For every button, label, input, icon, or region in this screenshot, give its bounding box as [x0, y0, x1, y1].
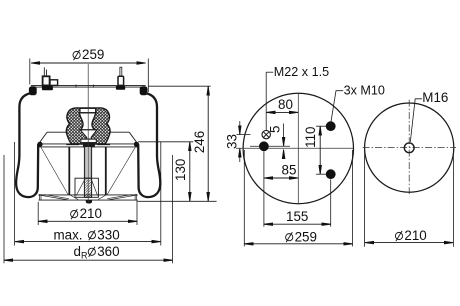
- svg-text:max.: max.: [54, 227, 83, 242]
- dim Ø259 top: dimension line: [31, 62, 146, 64]
- horizontal center line (dash-dot): [363, 147, 456, 149]
- dim Ø259 top: left extension line: [29, 59, 31, 85]
- leader M22: [265, 72, 267, 130]
- dim 130: dimension line: [189, 142, 191, 202]
- piston wall right: [105, 147, 107, 195]
- piston bottom band: [39, 194, 138, 196]
- rubber bumper (hatched): [66, 108, 110, 144]
- piston lid: [47, 131, 129, 133]
- svg-text:246: 246: [192, 131, 207, 153]
- svg-text:155: 155: [286, 209, 308, 224]
- dim Ø259 (middle): extensions: [243, 150, 245, 246]
- piston circle Ø210: [365, 103, 454, 192]
- center line left view: [87, 64, 89, 203]
- vertical center line (dash-dot): [408, 100, 410, 197]
- dim Ø210 (right): extensions: [364, 150, 366, 247]
- svg-text:259: 259: [295, 229, 317, 244]
- dim 110 line: [319, 126, 321, 174]
- dim max Ø330: extension lines: [14, 142, 16, 246]
- vertical center line: [297, 94, 299, 204]
- bottom nub: [86, 200, 92, 203]
- dim 5 (small, outside arrows): [283, 124, 285, 147]
- svg-text:210: 210: [80, 206, 102, 221]
- svg-text:33: 33: [224, 134, 239, 149]
- svg-text:M22 x 1.5: M22 x 1.5: [274, 65, 329, 79]
- bolt housing box with hatch: [75, 178, 98, 197]
- extension line through left M10 down to 155: [263, 152, 265, 227]
- bumper seat dashes: [66, 143, 79, 145]
- dim 33: dimension line with outside arrows: [239, 121, 241, 135]
- center bolt rod: [85, 147, 91, 178]
- dim max Ø330: dimension line: [15, 241, 161, 243]
- svg-text:360: 360: [97, 244, 119, 259]
- M16 center hole: [404, 143, 414, 153]
- dim Ø259 (middle): line: [244, 243, 352, 245]
- piston wall left: [68, 147, 70, 195]
- svg-text:259: 259: [82, 47, 104, 62]
- right bead clamp: [140, 86, 148, 95]
- bottom wedge hatch right: [108, 195, 138, 200]
- dim Ø210 bottom: label: [71, 209, 78, 219]
- washer under funnel: [81, 139, 96, 142]
- bolt head under bumper: [83, 143, 95, 148]
- dim Ø259 top: label: [73, 50, 80, 60]
- lobe curl over rim corner right: [134, 142, 139, 147]
- leader 3x M10: [331, 91, 343, 123]
- dim 85: [264, 177, 298, 179]
- svg-text:5: 5: [267, 125, 282, 132]
- piston strut right: [107, 147, 135, 194]
- stud right (M10): [120, 67, 122, 76]
- svg-text:80: 80: [278, 97, 293, 112]
- piston rim band: [38, 143, 139, 145]
- M10 level tick line: [250, 145, 290, 147]
- dim dR Ø360: dimension line: [4, 259, 173, 261]
- dim 246: dimension line with arrows: [207, 86, 209, 201]
- dim 155: right extension: [330, 179, 332, 226]
- svg-text:130: 130: [173, 159, 188, 181]
- dim Ø210 bottom: extension lines: [37, 202, 39, 225]
- dim 155 line: [264, 223, 331, 225]
- dim 130: extension tick: [138, 141, 193, 143]
- dim 80: [266, 111, 298, 113]
- left bead clamp: [29, 86, 37, 95]
- leader M16: [410, 99, 422, 142]
- reference line top (for 246): [148, 85, 210, 87]
- bumper notch plate: [80, 108, 96, 112]
- nut inside box (hatched): [84, 178, 91, 197]
- bumper funnel: [80, 130, 97, 139]
- svg-text:85: 85: [282, 162, 297, 177]
- air fitting / stud left (M22): [43, 67, 45, 76]
- bottom band ticks: [38, 194, 40, 200]
- bottom wedge hatch left: [39, 195, 69, 200]
- lobe curl over rim corner left: [37, 142, 42, 147]
- dim Ø210 (right): line: [365, 242, 454, 244]
- bellows outer wall right (rolling lobe): [138, 93, 160, 197]
- dim 110 ticks: [316, 125, 327, 127]
- M22 x 1.5 thread hole: [262, 130, 270, 138]
- dim Ø259 top: right extension line: [147, 59, 149, 93]
- plate circle Ø259: [243, 93, 353, 203]
- svg-text:M16: M16: [422, 90, 448, 105]
- svg-text:210: 210: [404, 228, 426, 243]
- bolt holes right M10 (filled): [326, 121, 336, 131]
- dim Ø210 bottom: dimension line: [38, 220, 137, 222]
- svg-text:330: 330: [97, 227, 119, 242]
- bolt hole left M10 (filled): [259, 141, 269, 151]
- bellows outer wall left (rolling lobe): [16, 93, 38, 197]
- top plate ticks: [75, 85, 77, 88]
- svg-text:110: 110: [303, 127, 318, 148]
- dim dR Ø360: extension lines: [3, 155, 5, 263]
- top plate: [31, 84, 146, 86]
- horizontal center line: [236, 147, 353, 149]
- piston strut left: [41, 147, 68, 194]
- reference line bottom (for 246/130): [138, 200, 217, 202]
- M22 level tick line: [237, 134, 251, 136]
- svg-text:3x M10: 3x M10: [344, 84, 385, 98]
